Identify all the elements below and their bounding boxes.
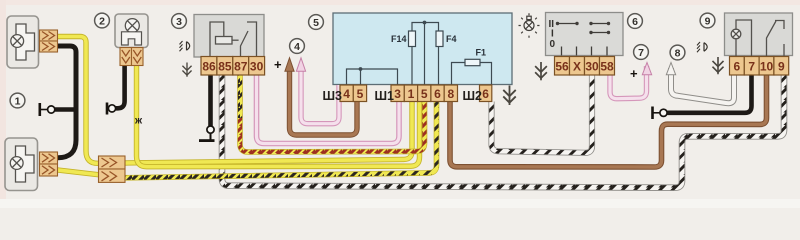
svg-text:9: 9	[705, 16, 711, 28]
svg-text:0: 0	[550, 39, 556, 50]
svg-text:F4: F4	[446, 34, 457, 44]
svg-text:F1: F1	[476, 48, 487, 58]
svg-text:30: 30	[250, 60, 264, 74]
svg-text:8: 8	[675, 48, 681, 60]
svg-text:F14: F14	[391, 34, 407, 44]
svg-text:58: 58	[600, 60, 614, 74]
svg-text:86: 86	[202, 60, 216, 74]
svg-text:3: 3	[394, 87, 401, 101]
svg-text:ж: ж	[134, 115, 143, 126]
svg-text:Ш3: Ш3	[323, 89, 343, 103]
svg-text:5: 5	[357, 87, 364, 101]
svg-text:+: +	[274, 57, 282, 72]
svg-text:9: 9	[778, 60, 785, 74]
svg-text:6: 6	[482, 87, 489, 101]
svg-text:7: 7	[748, 60, 755, 74]
svg-text:6: 6	[632, 16, 638, 28]
svg-text:X: X	[573, 60, 581, 74]
svg-text:4: 4	[343, 87, 350, 101]
svg-text:4: 4	[294, 41, 300, 53]
svg-text:Ш1: Ш1	[375, 89, 395, 103]
svg-text:2: 2	[99, 16, 105, 28]
svg-text:5: 5	[421, 87, 428, 101]
svg-text:1: 1	[15, 96, 21, 108]
svg-text:7: 7	[638, 47, 644, 59]
svg-text:10: 10	[760, 60, 774, 74]
svg-text:Ш2: Ш2	[463, 89, 483, 103]
svg-text:+: +	[630, 66, 638, 81]
svg-text:I: I	[551, 28, 554, 39]
svg-text:6: 6	[734, 60, 741, 74]
svg-text:1: 1	[408, 87, 415, 101]
svg-text:56: 56	[555, 60, 569, 74]
svg-text:85: 85	[218, 60, 232, 74]
svg-text:87: 87	[234, 60, 248, 74]
svg-text:8: 8	[447, 87, 454, 101]
svg-text:3: 3	[176, 16, 182, 28]
svg-text:6: 6	[434, 87, 441, 101]
svg-text:5: 5	[313, 17, 319, 29]
svg-text:30: 30	[585, 60, 599, 74]
